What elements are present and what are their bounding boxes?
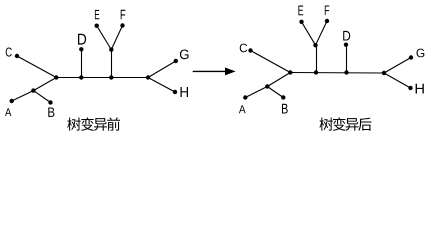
left tree: node C dot bbox=[15, 54, 19, 58]
left tree: junction j4 dot bbox=[109, 75, 113, 79]
left tree: label B bbox=[48, 108, 54, 117]
right tree: node A dot bbox=[243, 95, 247, 99]
left tree: wire j5 to G bbox=[148, 61, 176, 78]
right tree: label F bbox=[325, 6, 329, 15]
right tree: node C dot bbox=[248, 48, 252, 52]
right tree: junction j2 dot bbox=[265, 84, 269, 88]
left tree: backbone wire j1-j3-j4-j5 bbox=[56, 77, 148, 79]
right tree: node G dot bbox=[409, 55, 413, 59]
right tree: wire j2 to A bbox=[245, 87, 267, 98]
left tree: label D bbox=[78, 34, 86, 45]
right tree: backbone wire j1-j3-j4-j5 bbox=[290, 72, 384, 75]
left tree: node B dot bbox=[48, 100, 52, 104]
right tree: label B bbox=[282, 104, 288, 114]
arrow from left tree to right tree bbox=[193, 68, 236, 76]
right tree: junction j4 dot bbox=[344, 70, 348, 74]
right tree: wire j6 to F bbox=[316, 21, 328, 45]
left tree: wire C to junction j1 bbox=[17, 56, 56, 78]
left tree: wire j3 to D (vertical stem) bbox=[81, 49, 83, 77]
left tree: node A dot bbox=[10, 99, 14, 103]
left tree: label F bbox=[121, 10, 126, 19]
right tree: node B dot bbox=[281, 95, 285, 99]
right tree: node H dot bbox=[408, 86, 412, 90]
right tree: wire C to junction j1 bbox=[251, 51, 291, 73]
left tree: node D dot bbox=[79, 47, 83, 51]
right tree: node F dot bbox=[325, 19, 329, 23]
left tree: wire j2 to B bbox=[33, 91, 50, 103]
left tree: junction j2 dot bbox=[31, 88, 35, 92]
left tree: node G dot bbox=[174, 59, 178, 63]
left tree: label A bbox=[5, 108, 11, 116]
left tree: label H bbox=[181, 87, 189, 97]
right tree: wire j6 to E bbox=[302, 22, 316, 45]
right tree: label A bbox=[239, 105, 246, 113]
left tree: wire j6 to E bbox=[97, 26, 112, 50]
right tree: node D dot bbox=[344, 43, 348, 47]
right tree: label E bbox=[298, 5, 303, 15]
right tree: node E dot bbox=[299, 20, 303, 24]
left tree: junction j1 dot bbox=[54, 75, 58, 79]
left tree: junction j3 dot bbox=[79, 75, 83, 79]
left tree: junction j5 dot bbox=[146, 75, 150, 79]
right tree: junction j6 dot bbox=[313, 43, 317, 47]
right tree: wire j5 to G bbox=[384, 58, 411, 74]
left tree: junction j6 dot bbox=[109, 47, 113, 51]
left tree: node E dot bbox=[95, 24, 99, 28]
right tree: label H bbox=[416, 84, 424, 94]
left tree: node F dot bbox=[120, 23, 124, 27]
right tree: label D bbox=[343, 31, 350, 41]
right tree: junction j1 dot bbox=[288, 70, 292, 74]
right tree: wire j3 to j6 (vertical stem) bbox=[316, 45, 318, 72]
caption 树变异前 (before tree mutation) bbox=[67, 117, 120, 130]
right tree: wire j2 to B bbox=[267, 87, 283, 98]
right tree: label C bbox=[240, 44, 247, 53]
left tree: wire j5 to H bbox=[148, 78, 175, 93]
left tree: label G bbox=[180, 50, 189, 60]
right tree: label G bbox=[417, 49, 425, 58]
right tree: wire j1 to j2 bbox=[267, 73, 290, 87]
caption 树变异后 (after tree mutation) bbox=[319, 117, 371, 130]
right tree: wire j4 to D (vertical stem) bbox=[346, 45, 348, 73]
right tree: junction j5 dot bbox=[382, 71, 386, 75]
left tree: wire j6 to F bbox=[111, 26, 122, 50]
left tree: wire j4 to j6 (vertical stem) bbox=[111, 50, 113, 78]
left tree: label C bbox=[6, 47, 12, 56]
left tree: label E bbox=[95, 10, 99, 19]
left tree: wire j2 to A bbox=[12, 91, 34, 101]
left tree: wire j1 to j2 bbox=[33, 78, 56, 91]
right tree: junction j3 dot bbox=[314, 70, 318, 74]
right tree: wire j5 to H bbox=[384, 73, 411, 88]
left tree: node H dot bbox=[173, 90, 177, 94]
